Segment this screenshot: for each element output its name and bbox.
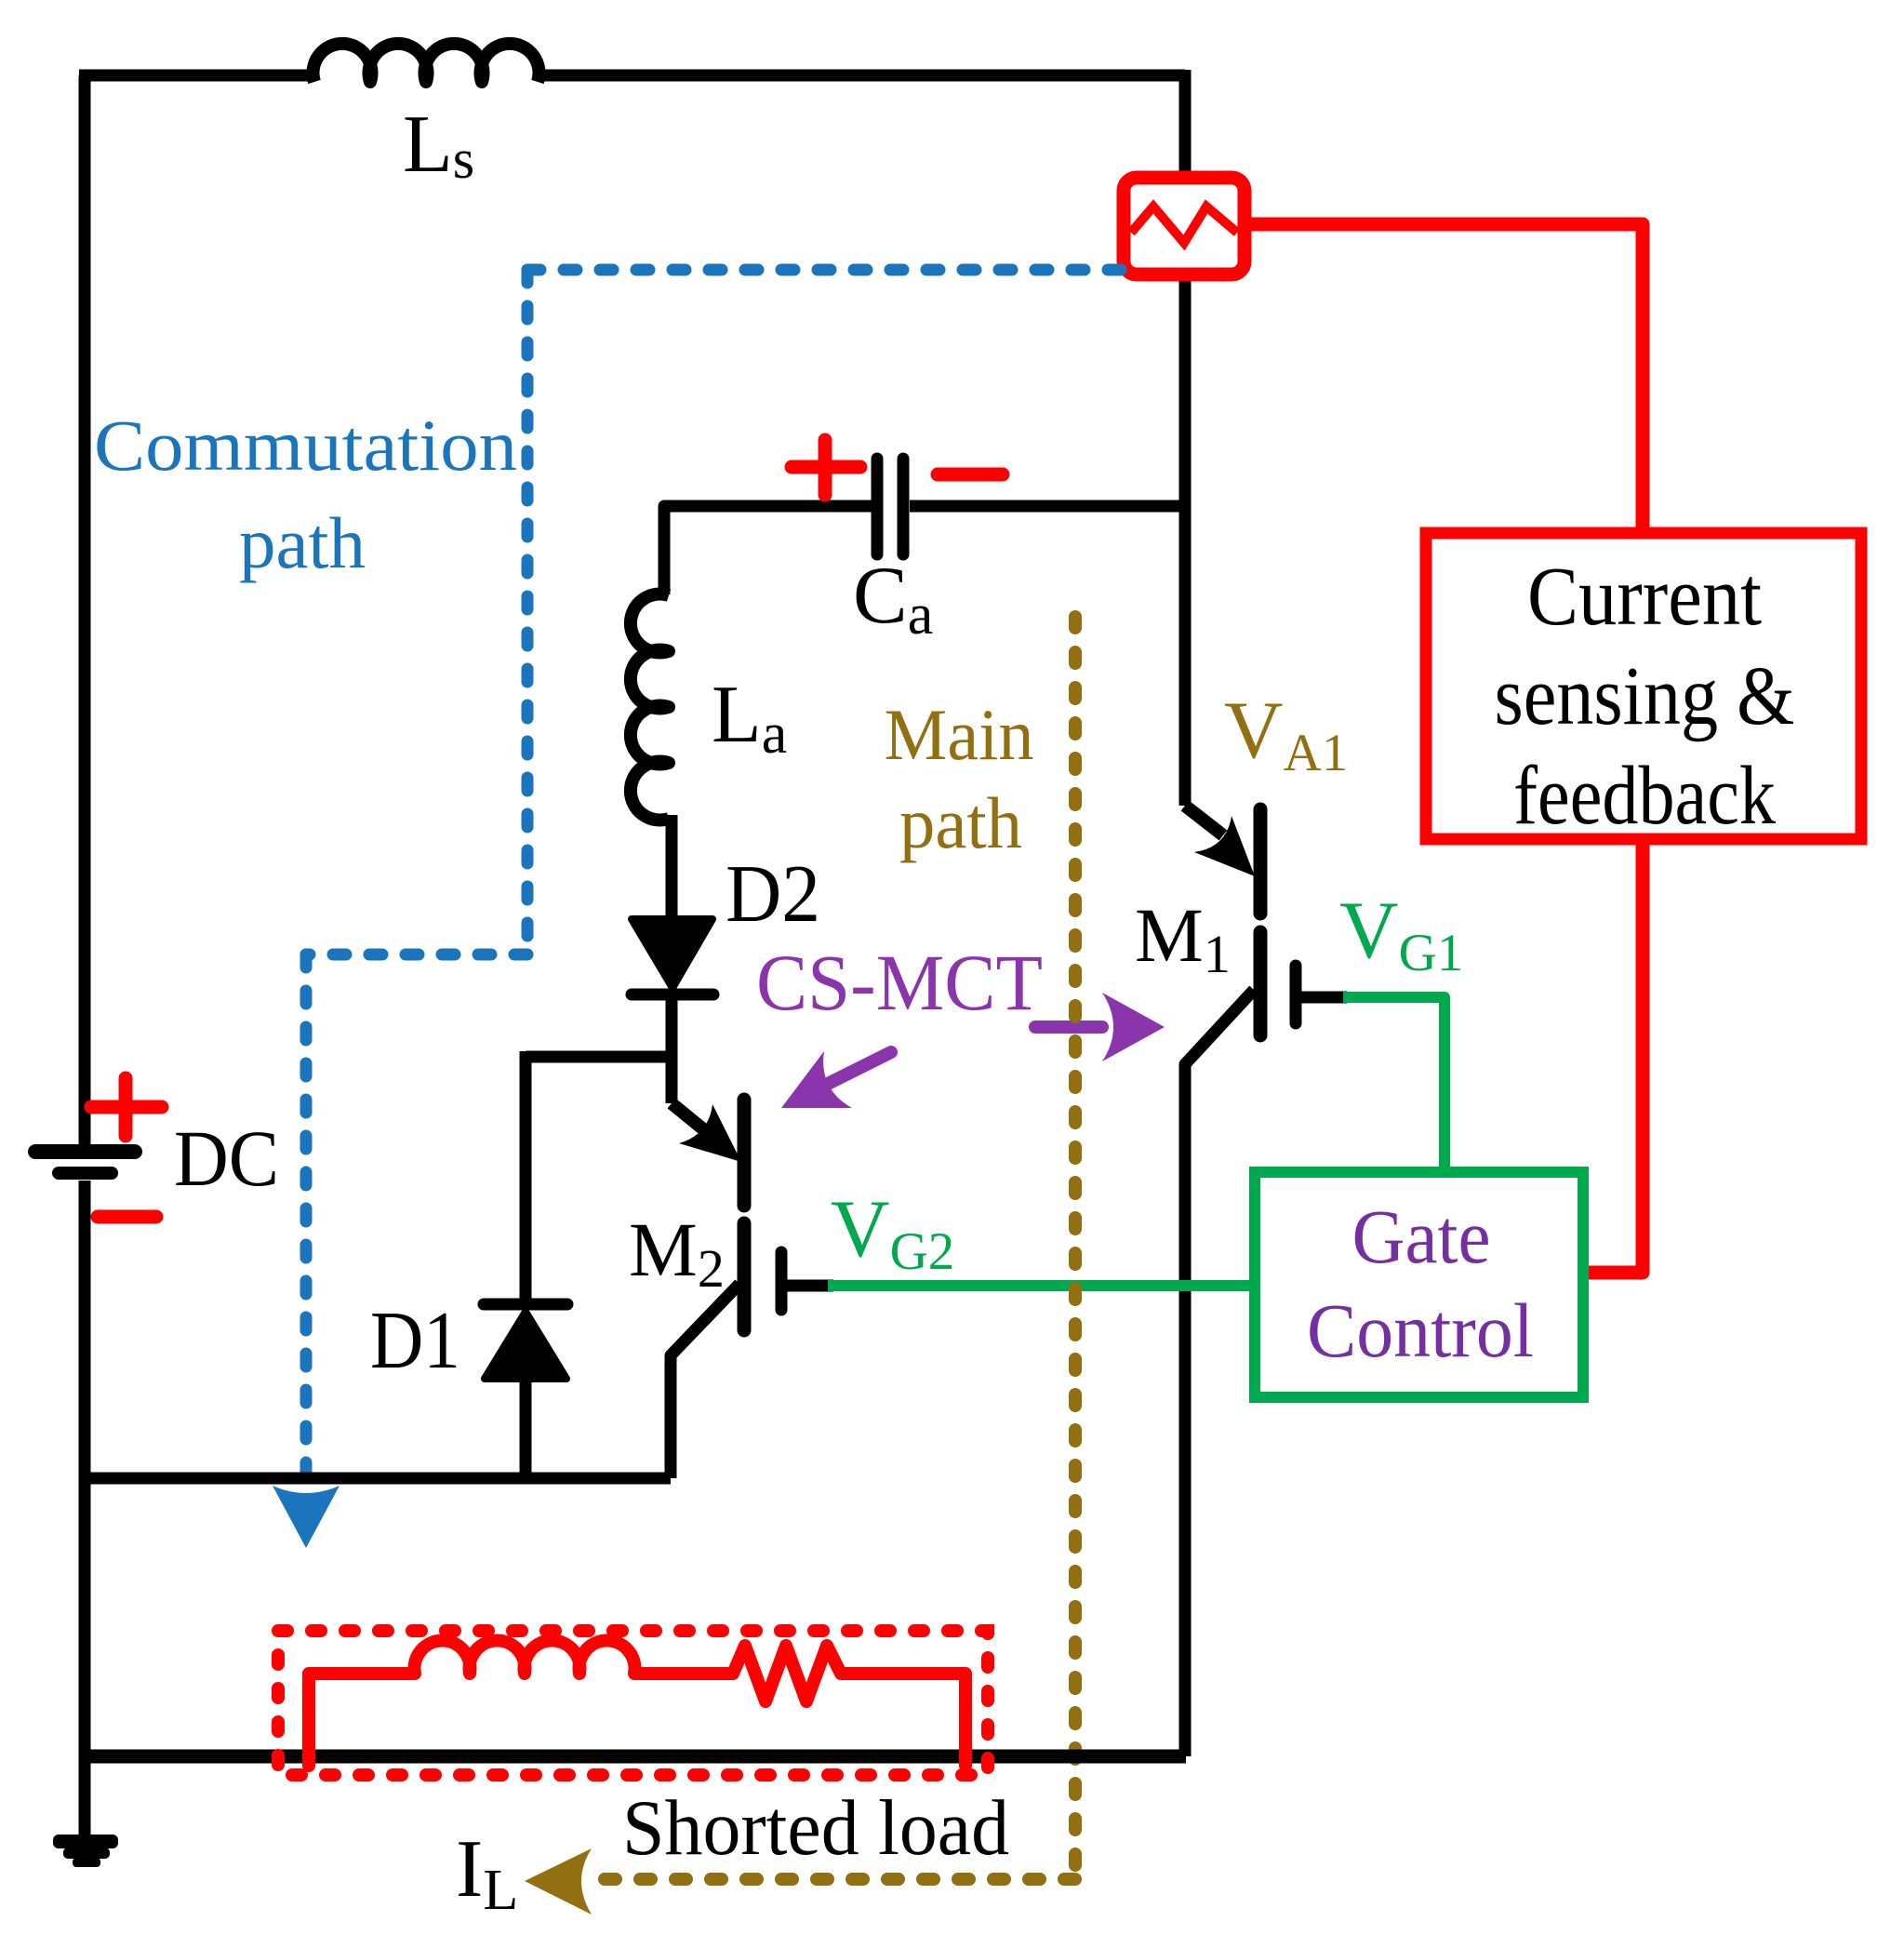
olive dashed main path horizontal bbox=[605, 1873, 1075, 1886]
transistor M1 main bar upper bbox=[1254, 809, 1268, 914]
red minus sign at DC bbox=[98, 1210, 156, 1224]
svg-text:La: La bbox=[712, 670, 787, 766]
wire: D1 anode down to mid wire bbox=[520, 1379, 532, 1478]
wire: bottom horizontal bbox=[85, 1750, 1186, 1764]
wire: junction horizontal to D1 branch bbox=[526, 1051, 672, 1063]
ground symbol bbox=[53, 1835, 118, 1848]
battery DC top plate bbox=[35, 1144, 135, 1159]
green wire VG2 bbox=[828, 1280, 1255, 1291]
wire: top horizontal right of Ls to right corner bbox=[540, 70, 1185, 82]
wire: mid bottom horizontal (M2 source / D1 anode) bbox=[85, 1473, 671, 1485]
transistor M2 gate lead bbox=[787, 1280, 833, 1292]
inductor La bbox=[631, 594, 669, 821]
blue arrowhead bbox=[273, 1486, 340, 1548]
red plus sign at Ca bbox=[792, 440, 860, 495]
svg-text:M2: M2 bbox=[629, 1207, 725, 1299]
diode D1 cathode bar bbox=[484, 1299, 567, 1311]
green wire VG1 bbox=[1343, 997, 1445, 1170]
capacitor Ca: left wire bbox=[664, 506, 872, 594]
wire: top horizontal left of Ls bbox=[79, 70, 313, 82]
svg-text:path: path bbox=[899, 782, 1022, 863]
olive dashed main path vertical bbox=[1069, 617, 1082, 1879]
svg-text:sensing &: sensing & bbox=[1495, 650, 1795, 742]
svg-text:VG1: VG1 bbox=[1339, 886, 1463, 982]
blue dashed commutation path: middle horizontal segment bbox=[306, 949, 527, 961]
current sensor box bbox=[1124, 178, 1245, 274]
transistor M1 gate lead bbox=[1301, 992, 1347, 1004]
svg-text:feedback: feedback bbox=[1513, 750, 1776, 842]
transistor M2 main bar upper bbox=[738, 1100, 752, 1206]
svg-text:Ca: Ca bbox=[853, 551, 933, 647]
svg-text:Main: Main bbox=[885, 694, 1034, 775]
red wire: sensor to current sensing box bbox=[1251, 224, 1643, 527]
transistor M1 emitter diagonal bbox=[1185, 990, 1254, 1756]
svg-text:M1: M1 bbox=[1135, 892, 1231, 984]
svg-text:Shorted load: Shorted load bbox=[622, 1784, 1009, 1872]
capacitor Ca: right wire bbox=[910, 500, 1185, 513]
transistor M1 gate bar bbox=[1290, 966, 1302, 1023]
svg-text:VA1: VA1 bbox=[1224, 686, 1348, 782]
svg-text:Commutation: Commutation bbox=[94, 405, 517, 486]
svg-text:path: path bbox=[239, 502, 366, 583]
svg-text:D1: D1 bbox=[370, 1296, 460, 1386]
diode D1 triangle bbox=[485, 1312, 566, 1379]
red dashed shorted load box bbox=[278, 1631, 988, 1775]
transistor M2 emitter diagonal bbox=[671, 1284, 739, 1478]
purple arrow right (to M1) bbox=[1035, 1021, 1102, 1034]
transistor M2 collector arrow shaft bbox=[672, 1103, 712, 1137]
transistor M2 main bar lower bbox=[738, 1223, 752, 1330]
transistor M1 main bar lower bbox=[1254, 932, 1268, 1035]
red plus sign at DC bbox=[91, 1078, 162, 1136]
diode D2 cathode bar bbox=[632, 989, 713, 1001]
wire: La bottom to D2 bbox=[666, 815, 678, 921]
diode D2 triangle bbox=[632, 919, 712, 988]
svg-text:Current: Current bbox=[1527, 551, 1762, 643]
transistor M2 collector arrowhead bbox=[679, 1104, 741, 1162]
inductor Ls bbox=[313, 44, 539, 82]
red load wire with inductor and resistor bbox=[309, 1641, 965, 1766]
capacitor Ca: right plate bbox=[898, 459, 910, 554]
svg-text:CS-MCT: CS-MCT bbox=[756, 938, 1043, 1027]
wire: D1 branch vertical bbox=[520, 1051, 532, 1299]
svg-text:Control: Control bbox=[1307, 1288, 1534, 1373]
svg-text:D2: D2 bbox=[726, 849, 820, 940]
wire: right vertical from top corner down to M1 anode bbox=[1179, 70, 1192, 806]
red minus sign at Ca bbox=[938, 468, 1003, 482]
svg-text:DC: DC bbox=[174, 1114, 279, 1203]
olive arrowhead IL bbox=[525, 1848, 592, 1915]
wire: left vertical from battery to ground bbox=[79, 1181, 91, 1839]
blue dashed commutation path: lower vertical segment bbox=[300, 954, 313, 1488]
box: Gate Control bbox=[1255, 1172, 1583, 1397]
transistor M1 collector arrow shaft bbox=[1185, 806, 1223, 835]
purple arrow left (to M2) bbox=[826, 1052, 891, 1085]
capacitor Ca: left plate bbox=[872, 459, 884, 554]
current sensor zigzag bbox=[1131, 207, 1237, 243]
transistor M2 gate bar bbox=[776, 1252, 788, 1310]
red wire: current sensing box down to gate control bbox=[1585, 846, 1643, 1273]
svg-text:IL: IL bbox=[456, 1824, 518, 1922]
wire: left vertical from top-left corner down to battery bbox=[79, 75, 91, 1144]
battery DC bottom plate bbox=[59, 1167, 112, 1180]
blue dashed commutation path: upper vertical segment bbox=[522, 270, 534, 954]
wire: D2 to M2 junction bbox=[666, 1000, 678, 1103]
svg-text:Gate: Gate bbox=[1352, 1194, 1491, 1279]
blue dashed commutation path: top horizontal segment bbox=[527, 264, 1124, 276]
transistor M1 collector arrowhead bbox=[1194, 816, 1255, 876]
box: Current sensing & feedback bbox=[1426, 533, 1861, 839]
svg-text:Ls: Ls bbox=[403, 100, 474, 190]
svg-text:VG2: VG2 bbox=[831, 1184, 954, 1281]
